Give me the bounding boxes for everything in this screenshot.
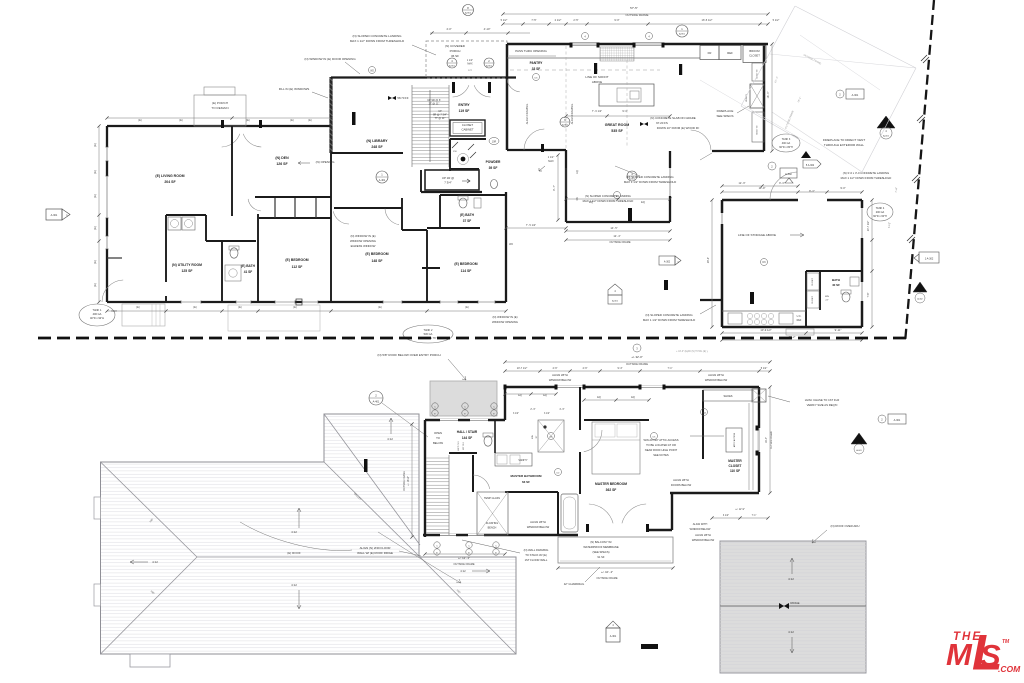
second floor EQ labels (584, 399, 649, 401)
svg-text:CLOSET: CLOSET (812, 295, 814, 304)
entry door leaf bars (452, 82, 455, 93)
svg-text:LEFT CLG: LEFT CLG (458, 441, 460, 451)
svg-text:UP: UP (438, 109, 442, 113)
svg-text:BENCH: BENCH (488, 527, 497, 530)
svg-text:EQ: EQ (631, 396, 635, 399)
kitchen counter line (507, 57, 700, 59)
svg-text:FLOATING: FLOATING (486, 522, 498, 525)
svg-text:PORCH: PORCH (450, 49, 461, 53)
svg-text:WINDOW BELOW: WINDOW BELOW (690, 528, 711, 531)
svg-text:ALIGN FRAMING: ALIGN FRAMING (525, 104, 529, 124)
closet block bedroom112 (259, 217, 331, 219)
second floor hall stair block walls (425, 419, 505, 421)
svg-text:(E): (E) (93, 170, 97, 174)
roof black bar (364, 459, 368, 472)
great room right wall (763, 44, 766, 151)
ADU roof ridge line (720, 605, 866, 607)
svg-text:114 SF: 114 SF (461, 269, 472, 273)
rotated dims left of great room extension (557, 155, 559, 220)
svg-text:PASS THRU OPENING: PASS THRU OPENING (515, 49, 547, 53)
svg-text:WATERPROOF MEMBRANE: WATERPROOF MEMBRANE (583, 545, 618, 549)
black door bars great room top (594, 63, 597, 74)
porch outline top (194, 95, 246, 126)
A-301 flag marker left (46, 209, 62, 220)
svg-text:(N) WINDOW IN (E) DOOR OPENING: (N) WINDOW IN (E) DOOR OPENING (304, 57, 356, 61)
master closet walls (702, 390, 704, 459)
10R oval (489, 138, 499, 145)
step rect below bottom wall left (122, 304, 165, 326)
svg-text:FIREPLACE TO DIRECT VENT: FIREPLACE TO DIRECT VENT (823, 138, 866, 142)
svg-text:A-401: A-401 (379, 179, 386, 182)
island (599, 84, 654, 106)
svg-text:UP 9R @ 6': UP 9R @ 6' (427, 98, 441, 102)
svg-text:4:12: 4:12 (387, 437, 393, 441)
ADU top second dim row (722, 185, 798, 187)
tank4 ellipse (867, 203, 893, 221)
svg-text:60"D x 60"H: 60"D x 60"H (873, 215, 887, 218)
svg-text:MAX 1 1/2" DOWN FROM THRESHOLD: MAX 1 1/2" DOWN FROM THRESHOLD (624, 180, 676, 184)
window symbols bottom wall (181, 300, 201, 304)
great room bottom walls (507, 149, 566, 151)
big triangle marker A-001 top right (877, 116, 895, 128)
svg-text:(N) 5/8" ROOF BELOW OVER ENTRY: (N) 5/8" ROOF BELOW OVER ENTRY PORCH (377, 353, 440, 357)
svg-text:+/- 12'-9": +/- 12'-9" (735, 508, 745, 511)
master suite left wall upper (504, 387, 506, 420)
svg-text:FIREPLACE: FIREPLACE (717, 109, 734, 113)
svg-text:TANK 4: TANK 4 (876, 207, 885, 210)
svg-text:THROUGH EXTERIOR WALL: THROUGH EXTERIOR WALL (824, 143, 865, 147)
ADU bath walls (806, 270, 862, 272)
door arc bottom left (102, 280, 123, 302)
svg-text:14'- 5": 14'- 5" (610, 226, 617, 230)
house marker 4 A-301 below great room (608, 284, 622, 295)
svg-text:A-001: A-001 (856, 449, 862, 452)
grid bubbles above hall (432, 403, 438, 409)
hall wall under den (255, 196, 331, 198)
ADU black bar (750, 292, 754, 304)
svg-text:2T @ 11": 2T @ 11" (429, 102, 440, 106)
stair treads entry (411, 85, 413, 167)
svg-text:A-302: A-302 (664, 261, 671, 264)
svg-text:ALIGN WITH: ALIGN WITH (552, 373, 568, 377)
svg-text:HIGH: HIGH (111, 311, 117, 313)
svg-text:OUTSIDE FRAME: OUTSIDE FRAME (453, 562, 475, 566)
small circles d4 d6 (548, 433, 555, 440)
svg-text:7'-1": 7'-1" (752, 514, 757, 517)
utility room walls (166, 214, 206, 216)
bath37 fixtures (459, 198, 467, 208)
toilet master bath (484, 436, 492, 446)
property line diagonal dashed (905, 0, 934, 343)
svg-text:U.C.: U.C. (797, 315, 802, 318)
svg-text:M: M (946, 637, 973, 672)
soffit dashed line (510, 69, 660, 71)
svg-text:A-901: A-901 (562, 123, 569, 126)
svg-text:A-901: A-901 (465, 11, 472, 14)
svg-text:4:12: 4:12 (788, 577, 794, 581)
ADU left dims (711, 200, 713, 327)
svg-text:(N) DEN: (N) DEN (275, 156, 289, 160)
misc leader arrows great room (615, 166, 640, 176)
svg-text:A-901: A-901 (679, 32, 686, 35)
svg-text:OUTSIDE FRAME: OUTSIDE FRAME (609, 240, 631, 244)
svg-text:CLOSET: CLOSET (462, 123, 473, 127)
bath37 walls (440, 194, 506, 196)
right side dims second floor (769, 387, 771, 493)
roof plan hatched area (101, 414, 517, 654)
library bottom wall (331, 152, 403, 154)
roof valley (324, 462, 420, 557)
svg-text:(N) WINDOW IN (E): (N) WINDOW IN (E) (350, 234, 375, 238)
svg-text:9FT CLG: 9FT CLG (463, 441, 465, 450)
tub (561, 494, 578, 532)
svg-text:BUILT IN: BUILT IN (757, 125, 759, 134)
svg-text:9'- 0": 9'- 0" (779, 182, 785, 185)
ADU door arc (770, 172, 797, 200)
dims above covered porch (430, 32, 530, 34)
roof ridge (197, 556, 420, 558)
svg-text:5 1/2": 5 1/2" (761, 367, 768, 370)
washer dryer boxes (168, 217, 181, 230)
svg-text:BROOM: BROOM (749, 49, 760, 53)
svg-text:(E) BATH: (E) BATH (460, 213, 474, 217)
svg-text:7'-1": 7'-1" (668, 367, 673, 370)
svg-text:2 1/2": 2 1/2" (555, 18, 562, 22)
svg-text:REF: REF (727, 51, 733, 55)
ADU step below (786, 329, 814, 335)
triangle marker 6 A-302 (913, 282, 927, 292)
svg-text:(E): (E) (93, 283, 97, 287)
svg-text:(E): (E) (93, 143, 97, 147)
wc walls (494, 420, 496, 453)
svg-text:4'-10": 4'-10" (484, 27, 491, 31)
svg-text:97.20 FS: 97.20 FS (656, 121, 668, 125)
FW diagonal marks powder (452, 142, 458, 148)
svg-text:A-301: A-301 (610, 635, 617, 638)
bath41 walls (257, 214, 259, 302)
svg-text:58.70 FF: 58.70 FF (397, 96, 408, 100)
svg-text:(E) BATH: (E) BATH (241, 264, 255, 268)
svg-text:(N) 3'-0 x 3'-0 CONCRETE LANDI: (N) 3'-0 x 3'-0 CONCRETE LANDING (843, 171, 889, 175)
extension window gaps (568, 168, 571, 196)
svg-text:3 1/2": 3 1/2" (723, 514, 729, 517)
great room left wall (506, 44, 509, 150)
svg-text:8'- 0": 8'- 0" (809, 190, 815, 193)
svg-text:HVAC CHASE TO 1ST FLR: HVAC CHASE TO 1ST FLR (805, 398, 839, 402)
ADU window gaps (720, 213, 724, 224)
porch markers (447, 58, 457, 68)
svg-text:+ 44'-0" (E)AD (N) TOTAL (E) y: + 44'-0" (E)AD (N) TOTAL (E) y (676, 350, 709, 353)
svg-text:36 SF: 36 SF (451, 54, 459, 58)
svg-text:BATH: BATH (832, 278, 840, 282)
kitchen hatched window sill (600, 47, 634, 61)
powder room walls (450, 138, 486, 140)
closet cabinet box (450, 120, 485, 136)
svg-text:7 3/4": 7 3/4" (444, 181, 451, 185)
svg-text:VANITY: VANITY (518, 458, 527, 462)
svg-text:A-001: A-001 (883, 135, 890, 138)
svg-text:TO BE LOCATED AT OR: TO BE LOCATED AT OR (646, 443, 676, 447)
bath bedroom divider (579, 387, 581, 430)
svg-text:(E): (E) (238, 305, 242, 309)
great room top windows (571, 42, 598, 44)
svg-text:MIN: MIN (532, 435, 534, 439)
svg-text:530 GA: 530 GA (424, 332, 433, 336)
svg-text:(E) BEDROOM: (E) BEDROOM (454, 262, 477, 266)
svg-text:(N) SLOPED CONCRETE LANDING: (N) SLOPED CONCRETE LANDING (626, 175, 674, 179)
svg-text:WINDOW OPENING: WINDOW OPENING (350, 239, 376, 243)
svg-text:LINE OF SOFFIT: LINE OF SOFFIT (585, 75, 608, 79)
svg-text:CLOSET: CLOSET (812, 277, 814, 286)
grid bubbles below hall (434, 542, 440, 548)
marker 2 A-301 right (888, 414, 906, 424)
svg-text:UP 1R @: UP 1R @ (442, 176, 454, 180)
svg-text:16'-4": 16'-4" (707, 257, 710, 263)
covered porch dashed outline (426, 41, 507, 78)
svg-text:4'-0": 4'-0" (446, 27, 451, 31)
svg-text:TO REMAIN: TO REMAIN (211, 106, 228, 110)
svg-text:(N) WALL FRAMING: (N) WALL FRAMING (524, 548, 549, 552)
svg-text:REF: REF (797, 319, 802, 322)
svg-text:57'-5": 57'-5" (630, 6, 638, 10)
library left hatched wall (329, 77, 332, 153)
svg-text:4:12: 4:12 (291, 530, 297, 534)
svg-text:OUTSIDE FRAME: OUTSIDE FRAME (770, 430, 773, 449)
svg-text:(N) BALCONY W/: (N) BALCONY W/ (590, 540, 612, 544)
bath41 fixtures (230, 248, 238, 258)
svg-text:148 SF: 148 SF (372, 259, 383, 263)
A-401 circle marker (376, 171, 388, 183)
attic access box (726, 428, 742, 452)
ADU outer walls (722, 199, 798, 202)
svg-text:MAX: MAX (467, 63, 473, 66)
svg-text:119 SF: 119 SF (459, 109, 470, 113)
shoes box (703, 390, 753, 401)
left dimension line (98, 126, 100, 302)
svg-text:VERIFY SIZE AS REQ'D: VERIFY SIZE AS REQ'D (807, 403, 838, 407)
faint roof construction lines top right (795, 6, 916, 68)
svg-text:WINDOW BELOW: WINDOW BELOW (692, 538, 715, 542)
great room lower extension walls (565, 150, 567, 222)
svg-text:+/- 16'-8": +/- 16'-8" (407, 476, 410, 486)
svg-text:(N) OPENING: (N) OPENING (316, 160, 336, 164)
svg-text:EQ: EQ (543, 394, 547, 397)
svg-text:(E): (E) (378, 305, 382, 309)
svg-text:(N) ROOF OVER ADU: (N) ROOF OVER ADU (831, 524, 860, 528)
entry block bottom wall (421, 191, 482, 193)
svg-text:42" GUARDRAIL: 42" GUARDRAIL (564, 582, 585, 586)
marker box A-302 left of ADU (780, 168, 797, 178)
svg-text:126 SF: 126 SF (276, 162, 288, 166)
svg-text:9'-4": 9'-4" (618, 367, 623, 370)
svg-text:TANK 3: TANK 3 (782, 138, 791, 141)
marker circles great room (676, 25, 688, 37)
svg-text:9'-1": 9'-1" (622, 109, 627, 113)
svg-text:ATTIC ACCESS: ATTIC ACCESS (733, 432, 736, 447)
first floor - existing left wing outer walls (107, 125, 331, 127)
svg-text:MAX: MAX (548, 160, 554, 163)
svg-text:DOWN 10" FROM (E) WOOD FF: DOWN 10" FROM (E) WOOD FF (657, 126, 700, 130)
svg-text:OUTSIDE FRAME: OUTSIDE FRAME (596, 576, 618, 580)
svg-text:400 GA: 400 GA (782, 142, 791, 145)
svg-text:125 SF: 125 SF (182, 269, 193, 273)
svg-text:4'-6": 4'-6" (553, 367, 558, 370)
ADU bath fixtures (842, 292, 850, 302)
ADU roof gray rect (720, 541, 866, 673)
svg-text:3 1/2": 3 1/2" (544, 413, 550, 415)
marker box A-301 bottom (606, 621, 620, 628)
roof upper diagonal (324, 414, 420, 545)
master right wall (758, 387, 760, 492)
svg-text:7'- 5 1/2": 7'- 5 1/2" (526, 223, 536, 227)
svg-text:PANTRY: PANTRY (530, 61, 544, 65)
svg-text:362 SF: 362 SF (606, 488, 617, 492)
svg-text:CABINET: CABINET (461, 128, 473, 132)
alignment dashed lines great room (565, 46, 567, 148)
black dash bottom (641, 644, 658, 649)
svg-text:40 SF: 40 SF (832, 283, 840, 287)
MLS logo (946, 625, 1021, 681)
svg-text:2'- 6": 2'- 6" (530, 409, 535, 411)
fridge and closet boxes (700, 46, 719, 60)
svg-text:LINE OF STORAGE ABOVE: LINE OF STORAGE ABOVE (738, 233, 776, 237)
closet bottom wall (670, 492, 759, 494)
entry porch roof gray rect (430, 381, 497, 416)
svg-text:12T: 12T (468, 70, 472, 72)
svg-text:(N) WINDOW IN (E): (N) WINDOW IN (E) (492, 315, 517, 319)
rotated outside frame dim left of hall (411, 424, 413, 537)
svg-text:ALIGN WITH: ALIGN WITH (530, 520, 546, 524)
svg-text:ALIGN WITH: ALIGN WITH (695, 533, 711, 537)
svg-text:EGRESS WINDOW: EGRESS WINDOW (351, 244, 376, 248)
svg-text:MAX 1 1/2" DOWN FROM THRESHOLD: MAX 1 1/2" DOWN FROM THRESHOLD (583, 199, 634, 203)
svg-text:MASTER BEDROOM: MASTER BEDROOM (595, 482, 627, 486)
roof hip top-left (101, 462, 198, 557)
svg-text:3 1/2": 3 1/2" (513, 413, 519, 415)
svg-text:(E): (E) (136, 305, 140, 309)
roof left notches (94, 497, 101, 519)
svg-text:TO STACK W/ (E): TO STACK W/ (E) (525, 553, 547, 557)
svg-text:(E): (E) (93, 260, 97, 264)
svg-text:A-301: A-301 (51, 214, 58, 217)
svg-text:110 SF: 110 SF (730, 469, 740, 473)
svg-text:(N) COVERED: (N) COVERED (445, 44, 466, 48)
svg-text:WINDOW BELOW: WINDOW BELOW (527, 525, 550, 529)
svg-text:(E): (E) (246, 118, 250, 122)
svg-text:MASTER BATHROOM: MASTER BATHROOM (511, 474, 542, 478)
black bar library (352, 112, 356, 125)
svg-text:(E): (E) (179, 118, 183, 122)
svg-text:A-401: A-401 (373, 401, 380, 404)
svg-text:ALIGN WITH: ALIGN WITH (673, 478, 689, 482)
svg-text:4:12: 4:12 (291, 583, 297, 587)
svg-text:ALIGN WITH: ALIGN WITH (693, 523, 708, 526)
great room top wall segments (507, 43, 571, 46)
tank1 ellipse (79, 304, 115, 326)
hall interior walls (449, 452, 477, 454)
svg-text:9'- 7": 9'- 7" (553, 185, 556, 191)
svg-text:A-901: A-901 (486, 64, 493, 67)
library top wall and entry top wall (331, 76, 516, 78)
right bottom dims second floor (712, 517, 768, 519)
svg-text:1 A-302: 1 A-302 (925, 258, 934, 261)
svg-text:OUTSIDE FRAME: OUTSIDE FRAME (626, 362, 648, 366)
fireplace niche (750, 84, 764, 108)
svg-text:24": 24" (825, 300, 828, 302)
svg-text:204 SF: 204 SF (164, 180, 176, 184)
svg-text:FR: FR (708, 51, 712, 55)
bedroom148 top wall (334, 207, 402, 209)
svg-text:16'-5 1/2": 16'-5 1/2" (702, 18, 713, 22)
svg-text:D6: D6 (762, 260, 766, 264)
svg-text:WINDOW BELOW: WINDOW BELOW (705, 378, 728, 382)
door leaf bars top wall (221, 120, 224, 128)
svg-text:POWDER: POWDER (486, 160, 501, 164)
powder fixtures (461, 157, 466, 162)
more tick slashes along property diagonal (919, 117, 925, 123)
marker 1 A-302 right (919, 252, 939, 263)
svg-text:13'-9 1/2": 13'-9 1/2" (760, 328, 771, 332)
hvac chase box (752, 389, 766, 402)
svg-text:5 1/2": 5 1/2" (773, 18, 780, 22)
svg-text:(E) BEDROOM: (E) BEDROOM (365, 252, 388, 256)
svg-text:16'-4": 16'-4" (765, 437, 768, 443)
58.70 FF spot elevation (388, 96, 396, 100)
svg-text:(N) SLOPED CONCRETE LANDING: (N) SLOPED CONCRETE LANDING (645, 313, 693, 317)
svg-text:1 1/2": 1 1/2" (548, 156, 555, 159)
svg-text:10'-7 1/2": 10'-7 1/2" (867, 221, 870, 232)
svg-text:112 SF: 112 SF (292, 265, 303, 269)
property line horizontal dashed (38, 337, 906, 340)
svg-text:ALIGN WITH: ALIGN WITH (708, 373, 724, 377)
vanity 2nd floor (495, 453, 532, 466)
svg-text:EQ: EQ (597, 396, 601, 399)
svg-text:7'-5": 7'-5" (531, 18, 536, 22)
second floor top dims (505, 361, 770, 363)
svg-text:4'- 6": 4'- 6" (559, 409, 564, 411)
svg-text:MASTER: MASTER (728, 459, 742, 463)
built-in boxes right wall (752, 63, 764, 81)
svg-text:(E): (E) (93, 194, 97, 198)
roof hip bottom-left (101, 557, 198, 654)
svg-text:2'-5": 2'-5" (573, 18, 578, 22)
svg-text:OPEN: OPEN (434, 431, 442, 435)
hall window gaps (440, 419, 458, 422)
svg-text:NEAR ROOF HIGH POINT: NEAR ROOF HIGH POINT (645, 448, 678, 452)
svg-text:(E): (E) (193, 305, 197, 309)
svg-text:41 SF: 41 SF (244, 270, 253, 274)
svg-text:+/- 32'-0": +/- 32'-0" (631, 355, 643, 359)
second floor master top wall (505, 386, 759, 388)
svg-text:(SEE SPECS): (SEE SPECS) (592, 550, 609, 554)
svg-text:(N) CONCRETE SLAB ON GRADE: (N) CONCRETE SLAB ON GRADE (650, 116, 696, 120)
great room top dimension lines (503, 13, 768, 15)
svg-text:12'-9": 12'-9" (759, 186, 766, 190)
svg-text:BELOW: BELOW (433, 441, 443, 445)
svg-text:A-302: A-302 (917, 298, 923, 301)
svg-text:7'-6": 7'-6" (867, 292, 870, 297)
svg-text:TEMP GLASS: TEMP GLASS (484, 497, 500, 500)
svg-text:18'- 4": 18'- 4" (767, 91, 770, 98)
bed (592, 422, 640, 474)
svg-text:TANK 2: TANK 2 (424, 328, 433, 332)
svg-text:(N) LIBRARY: (N) LIBRARY (366, 139, 388, 143)
closet shelving (748, 403, 750, 490)
svg-text:39 SF: 39 SF (489, 166, 498, 170)
balcony bottom dims (558, 567, 673, 569)
svg-text:(N) SLOPED CONCRETE LANDING: (N) SLOPED CONCRETE LANDING (352, 34, 402, 38)
svg-text:(E) LIVING ROOM: (E) LIVING ROOM (155, 174, 184, 178)
